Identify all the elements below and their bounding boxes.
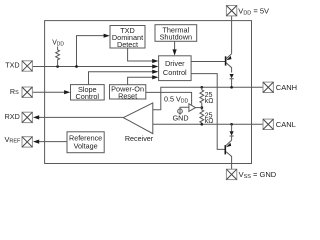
svg-text:Voltage: Voltage — [74, 141, 98, 150]
svg-text:kΩ: kΩ — [205, 98, 214, 105]
wire driver control to Q2 base (low side) — [191, 74, 225, 150]
svg-text:Control: Control — [76, 92, 100, 101]
wire VDD rail to high-side transistor collector — [231, 16, 233, 54]
svg-text:Detect: Detect — [117, 40, 138, 49]
pin CANL — [263, 119, 273, 129]
wire Rs to slope control — [32, 91, 65, 93]
svg-text:VDD: VDD — [52, 40, 64, 48]
source symbol (0.5VDD reference) — [178, 108, 183, 115]
box Thermal Shutdown — [155, 25, 197, 42]
svg-text:Control: Control — [163, 68, 187, 77]
arrowhead into Slope Control — [64, 90, 70, 94]
transistor Q2 (low side) — [225, 140, 231, 169]
pin VREF — [22, 137, 32, 147]
arrowhead TXD into Driver Control — [152, 64, 158, 68]
box Driver Control — [159, 56, 192, 81]
wire TXD to dominant-detect — [77, 36, 105, 67]
svg-text:RXD: RXD — [5, 112, 20, 121]
wire thermal shutdown to driver control — [174, 41, 176, 50]
diode D2 (CANL) — [230, 124, 234, 140]
resistor TXD pull-up — [56, 47, 60, 67]
wire VREF net — [39, 141, 68, 143]
svg-text:TXD: TXD — [5, 60, 19, 69]
resistor R2 25k — [200, 108, 204, 125]
wire source to buffer input — [180, 107, 189, 109]
junction center tap — [200, 106, 203, 109]
pin TXD — [22, 61, 32, 71]
wire power-on-reset to driver control — [128, 77, 154, 84]
box Power-On Reset — [110, 85, 146, 101]
wire buffer out to center tap — [196, 107, 202, 109]
arrowhead into RXD pin — [33, 115, 39, 119]
svg-text:GND: GND — [173, 114, 189, 123]
junction CANL/R2 — [200, 123, 203, 126]
pin VDD — [226, 6, 236, 16]
arrowhead detect-out into Driver Control — [152, 59, 158, 63]
box TXD Dominant Detect — [110, 26, 145, 49]
wire TXD-dominant-detect output to driver control — [128, 48, 154, 61]
pin RXD — [22, 112, 32, 122]
arrowhead into TXD Dominant Detect — [104, 34, 110, 38]
arrowhead into VREF pin — [33, 140, 39, 144]
resistor R1 25k — [200, 87, 204, 107]
wire RXD net (receiver output) — [39, 116, 124, 118]
diode D1 (CANH) — [230, 74, 234, 87]
op-amp U1 receiver — [123, 103, 153, 134]
svg-text:CANL: CANL — [276, 120, 296, 129]
arrowhead POR into Driver Control — [152, 75, 158, 79]
wire CANH net — [153, 87, 263, 109]
junction CANH/driver — [230, 86, 233, 89]
junction CANL/driver — [230, 123, 233, 126]
svg-text:VDD = 5V: VDD = 5V — [238, 7, 269, 17]
junction TXD/pullup — [56, 65, 59, 68]
box Reference Voltage — [67, 132, 104, 153]
wire power-on-reset to 0.5VDD buffer enable — [146, 92, 192, 104]
pin CANH — [263, 82, 273, 92]
svg-text:Driver: Driver — [165, 59, 185, 68]
wire slope control to driver control — [89, 72, 154, 85]
wire driver control to Q1 base — [191, 61, 225, 63]
wire receiver bottom input stub — [152, 123, 154, 125]
svg-text:Shutdown: Shutdown — [160, 33, 192, 42]
svg-text:Receiver: Receiver — [125, 134, 154, 143]
arrowhead thermal into Driver Control — [173, 49, 177, 55]
wire TXD net — [32, 66, 153, 68]
enclosure box (IC boundary) — [45, 21, 252, 164]
pin VSS — [226, 169, 236, 179]
buffer U2 (0.5VDD driver) — [189, 104, 196, 112]
wire CANL net — [153, 123, 263, 125]
pin Rs — [22, 87, 32, 97]
svg-text:Reset: Reset — [118, 92, 137, 101]
transistor Q1 (high side PNP) — [226, 54, 232, 73]
junction CANH/R1 — [200, 86, 203, 89]
junction TXD/detect-branch — [75, 65, 78, 68]
arrowhead slope into Driver Control — [152, 70, 158, 74]
svg-text:CANH: CANH — [276, 83, 297, 92]
box Slope Control — [71, 85, 105, 101]
